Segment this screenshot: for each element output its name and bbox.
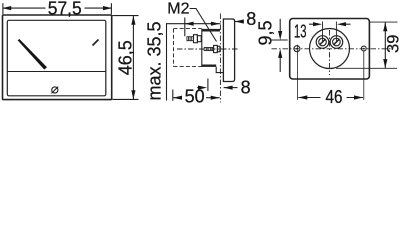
rear view: 46 dimension extension lines bbox=[297, 45, 299, 100]
side view: case back wall bbox=[201, 29, 203, 67]
svg-text:13: 13 bbox=[294, 22, 307, 42]
svg-text:8: 8 bbox=[241, 78, 251, 98]
dimension 57,5 line bbox=[3, 7, 46, 9]
rear view: screw axis extension line bbox=[272, 39, 288, 41]
svg-text:57,5: 57,5 bbox=[48, 0, 82, 19]
rear view: body outline bbox=[290, 19, 370, 80]
dimension 46,5 line bbox=[132, 16, 134, 100]
svg-text:50: 50 bbox=[185, 86, 205, 104]
rear view: movement big circle bbox=[310, 29, 350, 69]
side view: horizontal centerline dash-dot bbox=[177, 48, 239, 50]
side view: dashed max envelope box bbox=[174, 29, 202, 67]
svg-text:M2: M2 bbox=[167, 1, 189, 18]
side view: bottom 8 dimension bbox=[197, 87, 203, 89]
side view: max.35,5 label leader bracket bbox=[167, 24, 185, 101]
side view: panel plane dash-dot line bbox=[219, 14, 221, 103]
side view: top 8 dimension arrow bbox=[235, 21, 244, 23]
rear view: 46 dimension line bbox=[298, 97, 320, 99]
rear view: 13 dimension arrows bbox=[309, 23, 314, 25]
rear view: terminal screw left bbox=[316, 36, 329, 49]
dimension 46,5 extension line bottom bbox=[113, 98, 139, 100]
side view: case bottom step bbox=[216, 67, 223, 73]
svg-text:max. 35,5: max. 35,5 bbox=[145, 21, 165, 100]
svg-text:39: 39 bbox=[385, 35, 400, 53]
svg-text:46,5: 46,5 bbox=[115, 40, 135, 75]
side view: dim line max 35,5 bbox=[185, 23, 221, 25]
side view: M2 leader line bbox=[190, 9, 217, 42]
scale tick mark bbox=[93, 40, 99, 46]
front view scale separator line bbox=[7, 71, 106, 73]
side view: center stud washer bbox=[217, 46, 220, 51]
dimension 57,5 extension line right bbox=[110, 3, 112, 14]
side view: extension line at stud tip bbox=[184, 18, 186, 37]
front view inner window frame bbox=[7, 20, 106, 96]
needle pointer bbox=[18, 39, 47, 70]
front view meter outer case bbox=[3, 15, 112, 100]
rear view: right mounting hole bbox=[361, 46, 366, 51]
side view: terminal stud nut bbox=[194, 35, 198, 43]
side view: 50 dimension bbox=[172, 90, 174, 101]
side view: center mounting stud rod bbox=[204, 48, 213, 51]
side view: case top edge thick bbox=[202, 29, 220, 32]
rear view: 39 dimension extension lines bbox=[370, 21, 398, 23]
side view: case bottom edge thick bbox=[202, 64, 216, 66]
rear view: 13 dimension extension lines bbox=[322, 22, 324, 43]
rear view: 9,5 dimension upper arrow bbox=[279, 19, 281, 33]
rear view: vertical centerline dash-dot bbox=[329, 30, 331, 75]
dimension 57,5 extension line left bbox=[2, 3, 4, 14]
rear view: horizontal centerline dash-dot bbox=[272, 48, 393, 50]
side view: terminal stud washer bbox=[197, 36, 201, 42]
side view: center stud nut bbox=[214, 45, 218, 52]
rear view: 39 dimension line bbox=[384, 22, 386, 68]
rear view: 9,5 dimension lower arrow bbox=[279, 55, 281, 72]
side view: terminal stud threaded rod bbox=[187, 37, 194, 41]
rear view: left mounting hole bbox=[294, 46, 300, 52]
side view: front flange bbox=[223, 19, 234, 82]
zero adjust screw bbox=[52, 87, 58, 93]
rear view: terminal screw right bbox=[330, 36, 343, 49]
dimension 46,5 extension line top bbox=[113, 15, 139, 17]
svg-text:46: 46 bbox=[326, 87, 343, 104]
svg-text:9,5: 9,5 bbox=[255, 20, 275, 45]
